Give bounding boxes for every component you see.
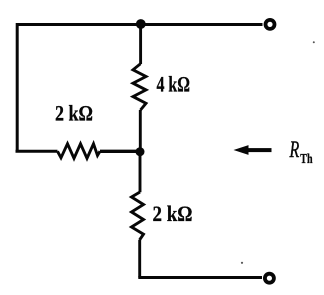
wire: bottom rail to bottom-right terminal bbox=[138, 276, 262, 279]
arrow: R_Th direction arrow (pointing left) bbox=[234, 145, 272, 155]
wire: from top junction down to resistor R2 bbox=[139, 24, 142, 64]
svg-text:2 kΩ: 2 kΩ bbox=[153, 201, 193, 226]
wire: from resistor R2 down to middle node bbox=[139, 110, 142, 152]
node: middle junction (filled dot) bbox=[136, 147, 145, 156]
terminal: bottom-right open circle bbox=[265, 274, 274, 283]
wire: from resistor R1 to middle node bbox=[100, 150, 140, 153]
svg-text:R: R bbox=[289, 137, 299, 162]
wire: left vertical rail bbox=[16, 23, 19, 151]
speck: scan artifact near bottom wire bbox=[241, 262, 243, 264]
resistor R3 2 kOhm (vertical zigzag) bbox=[132, 192, 144, 240]
svg-text:2 kΩ: 2 kΩ bbox=[55, 101, 93, 126]
resistor R1 2 kOhm (horizontal zigzag) bbox=[58, 144, 101, 159]
label: R_Th bbox=[289, 137, 313, 166]
wire: bottom-left horizontal lead to resistor R1 bbox=[16, 150, 58, 153]
terminal: top-right open circle bbox=[266, 20, 275, 29]
wire: from middle node down to resistor R3 bbox=[139, 152, 142, 193]
node: top junction (filled dot) bbox=[136, 19, 146, 29]
wire: from resistor R3 down to bottom corner bbox=[138, 240, 141, 278]
wire: top rail from left corner to top-right terminal bbox=[17, 23, 263, 26]
speck: scan artifact below top terminal bbox=[313, 41, 315, 43]
svg-text:4 kΩ: 4 kΩ bbox=[157, 71, 191, 96]
svg-text:Th: Th bbox=[300, 151, 313, 166]
resistor R2 4 kOhm (vertical zigzag) bbox=[133, 64, 146, 110]
